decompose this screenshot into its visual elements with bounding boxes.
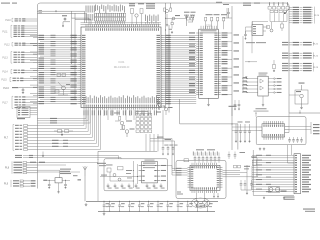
wire IC902 right row <box>268 92 274 94</box>
power rail over IC01 A <box>81 22 162 24</box>
wire PL7 row <box>15 131 19 132</box>
bottom right caption <box>303 209 315 210</box>
wire PL30 row <box>295 179 297 180</box>
wire PL17 row <box>15 104 18 105</box>
IC601 left pins <box>139 165 142 167</box>
wire PL30 row <box>295 186 297 187</box>
transistor Q204 <box>164 107 168 111</box>
svg-text:PL17: PL17 <box>2 102 8 104</box>
U301 side pins <box>259 126 263 128</box>
bottom-right board outline <box>252 150 254 195</box>
wire <box>241 189 252 191</box>
capacitor C709 <box>187 201 189 205</box>
wire PL30 row <box>295 177 297 178</box>
wire <box>251 166 253 190</box>
wire PL20 row <box>289 22 292 24</box>
wire PL13 row <box>14 62 17 63</box>
wire PL21 row <box>282 44 288 45</box>
IC IC701 body <box>190 165 220 190</box>
wire audio feed A <box>150 138 172 140</box>
capacitor C705 <box>147 201 149 205</box>
wire <box>153 134 155 151</box>
diode D11 cluster <box>58 130 62 133</box>
wire <box>223 176 259 178</box>
title text top-left <box>1 3 10 4</box>
wire <box>245 61 257 63</box>
net labels top edge <box>216 2 222 3</box>
wire IC902 left row <box>242 85 258 87</box>
wire PL9 row <box>13 183 19 184</box>
ground <box>103 212 105 213</box>
wire PL7 row <box>15 149 19 150</box>
capacitor C2 <box>64 18 66 22</box>
wire <box>157 134 159 151</box>
tuner inner caps <box>289 137 291 140</box>
transistor Q202 <box>172 17 175 20</box>
ground <box>262 96 264 104</box>
caption under IC301 <box>246 41 255 44</box>
svg-text:PL11: PL11 <box>2 31 8 33</box>
svg-text:PL8: PL8 <box>5 167 10 170</box>
power rail over IC01 B <box>81 23 162 25</box>
transistor Q103 <box>62 86 66 90</box>
svg-text:PL22: PL22 <box>313 56 319 58</box>
ground below IC201 <box>208 98 210 103</box>
resistor R205 <box>217 17 219 21</box>
wire PL11 row <box>14 30 17 31</box>
wire PL12 row <box>15 45 18 46</box>
wire rows upper <box>37 118 86 120</box>
resistor array RN101 <box>136 110 148 113</box>
wire PL30 row <box>295 162 297 163</box>
connector J2 table <box>17 107 30 118</box>
net labels cluster B <box>184 12 190 13</box>
IC01 bottom net labels <box>83 110 86 115</box>
IC IC01 MLC1900-D body <box>81 27 161 108</box>
wire row pair <box>15 155 22 156</box>
wire IC902 left row <box>242 81 258 83</box>
test point TP1 <box>71 18 73 62</box>
top label column A <box>85 6 88 13</box>
capacitor C710 <box>240 180 242 184</box>
audio out wires <box>172 167 188 169</box>
IC701 top components <box>194 153 196 158</box>
transistor Q702 <box>203 201 207 205</box>
capacitor C708 <box>177 201 179 205</box>
ground rail <box>98 210 215 212</box>
net label pair bottom <box>284 197 295 198</box>
wire <box>137 164 139 184</box>
wire branch <box>166 17 187 19</box>
wire PL13 row <box>14 54 17 55</box>
wire <box>255 113 257 117</box>
wire cluster verticals <box>269 13 271 21</box>
resistor R710 <box>253 160 257 166</box>
IC01 right pins <box>161 34 164 36</box>
ground <box>301 106 303 107</box>
IC301 right parts <box>263 26 268 28</box>
wire PL20 row <box>289 11 292 13</box>
decoupling caps trio <box>162 144 164 148</box>
IC IC201 SDRAM body <box>199 29 219 98</box>
wire VDD top <box>37 12 86 14</box>
wire PL23 row <box>282 70 288 71</box>
wire PL13 row <box>14 57 17 58</box>
ground <box>213 193 215 196</box>
wire PL10 row <box>15 18 18 19</box>
wire IC902 left row <box>242 92 258 94</box>
wire PL8 row <box>14 167 23 168</box>
labels mid rows <box>52 140 59 141</box>
top label column B <box>144 15 147 22</box>
svg-text:PL14: PL14 <box>2 72 8 74</box>
wire PL9 row <box>13 185 19 186</box>
capacitor C901 <box>48 180 50 184</box>
wire <box>145 134 147 151</box>
wire PL22 row <box>282 55 288 56</box>
capacitor C703 <box>128 201 130 205</box>
wire <box>74 19 76 100</box>
resistor R203 <box>205 17 207 21</box>
transistor Q205 <box>191 15 194 18</box>
wire PL11 row <box>14 25 17 26</box>
IC301 left caps <box>246 26 253 28</box>
svg-text:PL20: PL20 <box>314 15 320 17</box>
IC701 left pins <box>188 166 191 168</box>
net label <box>73 175 78 176</box>
capacitor C210 <box>171 22 173 24</box>
wire <box>256 158 258 177</box>
wire PL7 row <box>15 140 19 141</box>
IC701 top labels <box>196 149 204 150</box>
svg-text:PL15: PL15 <box>1 80 7 82</box>
capacitor C711 <box>207 201 209 205</box>
wire PL20 row <box>289 13 292 15</box>
tuner TU101 outline <box>256 117 306 145</box>
wire left vertical <box>242 36 244 93</box>
capacitor C700 <box>103 201 105 205</box>
wire PL11 row <box>14 34 17 35</box>
wire PL17 row <box>15 96 18 97</box>
ground <box>263 197 265 198</box>
wire PL22 row <box>282 53 288 54</box>
capacitor C712 <box>251 180 253 184</box>
transistor Q203 <box>158 103 162 107</box>
svg-text:PL7: PL7 <box>4 137 9 140</box>
ground <box>48 186 50 187</box>
capacitor C710 <box>197 201 199 205</box>
wire PL15 row <box>13 78 16 79</box>
ground <box>204 205 206 206</box>
svg-text:PL12: PL12 <box>4 44 10 46</box>
wire PL7 row <box>15 137 19 138</box>
wire PL14 row <box>14 72 17 73</box>
wire PL20 row <box>289 17 292 19</box>
capacitor C713 <box>228 152 230 155</box>
resistor R204 <box>211 17 213 21</box>
wire audio in <box>100 176 139 178</box>
wire fan to left connector <box>83 110 85 126</box>
wire PL20 row <box>289 6 292 8</box>
wire <box>246 165 248 190</box>
svg-text:IC01: IC01 <box>118 60 124 64</box>
resistor R207 <box>187 17 190 20</box>
transistor Q102 <box>125 130 129 134</box>
wire +B out <box>62 179 70 181</box>
wire PL30 row <box>295 165 297 166</box>
IC01 top pins <box>85 24 87 27</box>
IC IC902 audio driver body <box>258 76 268 96</box>
IC01 left pins <box>78 34 81 36</box>
wire <box>288 113 290 133</box>
wire <box>287 152 289 163</box>
wire PL17 row <box>15 99 18 100</box>
optocoupler Q801 <box>269 188 273 192</box>
wire PL17 row <box>15 102 18 103</box>
wire riser2 <box>97 159 99 201</box>
grounds below tuner <box>259 148 261 149</box>
wire PL8 row <box>14 172 23 173</box>
IC IC301 reset body <box>252 25 263 36</box>
ground <box>65 186 67 187</box>
wire PL20 row <box>289 20 292 22</box>
wire IC902 right row <box>268 78 274 80</box>
svg-text:MLC1900-D: MLC1900-D <box>114 65 130 69</box>
wire <box>132 161 134 188</box>
resistor R304 <box>273 60 275 65</box>
IC701 top pins <box>191 163 193 166</box>
wire PL30 row <box>295 174 297 175</box>
wire collector <box>98 150 157 152</box>
net labels top right area <box>243 3 251 4</box>
svg-text:PL10: PL10 <box>5 20 11 22</box>
wire IC902 right row <box>268 81 274 83</box>
IC601 right pins <box>157 165 160 167</box>
wire PL7 row <box>15 143 19 144</box>
antenna symbol <box>84 176 86 201</box>
ground <box>283 197 285 198</box>
wire PL9 row <box>13 180 19 181</box>
ground <box>217 193 219 196</box>
IC01 bottom pins <box>83 108 85 110</box>
wire stub <box>63 21 70 23</box>
wire route B <box>75 18 91 20</box>
resistor R208 <box>191 17 194 20</box>
wire PL21 row <box>282 42 288 43</box>
capacitor C302 <box>234 100 236 104</box>
ground stub <box>42 152 44 155</box>
wire PL11 row <box>14 36 17 37</box>
wire verticals below IC01 <box>103 110 105 116</box>
capacitor C714 <box>234 152 236 155</box>
resistor R206 <box>162 106 165 108</box>
transistor Q302 <box>270 29 273 32</box>
ground <box>171 31 173 32</box>
wire <box>223 172 248 174</box>
wire PL13 row <box>14 59 17 60</box>
IC701 right pins <box>220 166 223 168</box>
wire antenna bus <box>231 108 233 151</box>
capacitor C704 <box>138 201 140 205</box>
ground <box>85 203 87 204</box>
wire PL20 row <box>289 9 292 11</box>
wire <box>223 169 241 171</box>
wire vertical bus 1 <box>165 8 167 109</box>
wire PL30 row <box>295 160 297 161</box>
tuner input components <box>235 124 237 131</box>
audio caps row <box>107 184 109 186</box>
resistor R303 <box>281 24 284 28</box>
wire <box>110 180 133 182</box>
net labels right of IC201 <box>234 34 240 35</box>
wire <box>252 22 254 25</box>
wire PL30 row <box>295 169 297 170</box>
capacitor C701 <box>109 201 111 205</box>
wire PL14 row <box>14 70 17 71</box>
wire <box>165 111 167 115</box>
transistor Q301 circuit <box>295 90 308 104</box>
transistor Q101 <box>120 121 124 125</box>
wire PL22 row <box>282 57 288 58</box>
tuner right outputs <box>289 126 311 128</box>
svg-text:PL13: PL13 <box>2 57 8 59</box>
wire vertical bus 2 <box>168 25 170 113</box>
IC701 sub-board outline <box>176 161 226 199</box>
arrow entering board <box>285 9 290 14</box>
capacitor C702 <box>119 201 121 205</box>
arrow marker <box>245 77 247 79</box>
capacitor C706 <box>157 201 159 205</box>
wire PL30 row <box>295 155 297 156</box>
svg-text:PL16: PL16 <box>3 87 9 90</box>
audio net labels top <box>97 163 106 164</box>
IC201 right pins <box>218 32 221 34</box>
wire PL30 row <box>295 172 297 173</box>
wire <box>162 110 164 144</box>
resistor R209 <box>223 17 225 21</box>
wire IC902 right row <box>268 85 274 87</box>
U301 top pins <box>263 121 265 124</box>
wire PL30 row <box>295 181 297 182</box>
tuner TU101 label <box>256 108 267 109</box>
wire PL7 row <box>15 125 19 126</box>
capacitor C902 <box>65 180 67 184</box>
wire PL30 row <box>295 157 297 158</box>
wire PL20 row <box>289 15 292 17</box>
wire PL7 row <box>15 128 19 129</box>
wire PL11 row <box>14 32 17 33</box>
wire bundle IC01 left <box>30 34 78 36</box>
power rail <box>86 200 218 202</box>
wire <box>149 134 151 151</box>
ground <box>22 91 24 92</box>
wire PL30 row <box>295 189 297 190</box>
wire PL23 row <box>282 68 288 69</box>
net labels cluster C <box>206 14 213 15</box>
wire PL23 row <box>282 65 288 66</box>
wire PL7 row <box>15 146 19 147</box>
ground <box>58 183 60 191</box>
wire +5V in <box>43 180 47 181</box>
wire <box>59 170 61 178</box>
svg-text:IC201: IC201 <box>205 25 212 28</box>
resistor network RN2 <box>268 7 271 10</box>
IC701 right components <box>234 165 237 168</box>
wire <box>63 90 65 95</box>
wire <box>118 156 120 159</box>
wire PL10 row <box>15 20 18 21</box>
wire PL30 row <box>295 191 297 192</box>
svg-text:PL9: PL9 <box>4 183 9 186</box>
wire PL7 row <box>15 134 19 135</box>
IC701 bottom pins <box>191 191 193 194</box>
capacitor C707 <box>167 201 169 205</box>
audio interior labels <box>108 187 111 190</box>
wire VCC top <box>37 10 84 12</box>
regulator IC901 notes <box>60 169 71 170</box>
wire PL15 row <box>13 80 16 81</box>
wire rows to PL8 <box>37 161 98 163</box>
wire IC902 right row <box>268 88 274 90</box>
capacitor C205 <box>228 8 230 12</box>
wire PL30 row <box>295 167 297 168</box>
wire PL23 row <box>282 63 288 64</box>
transistor Q201 <box>166 10 169 13</box>
svg-text:PL23: PL23 <box>313 67 319 69</box>
wire PL8 row <box>14 162 23 163</box>
transistor Q701 <box>195 201 199 205</box>
wire to regulator <box>37 169 59 171</box>
capacitor C15 <box>22 88 24 90</box>
wire <box>171 166 173 176</box>
wire tuner in <box>232 126 259 128</box>
wire <box>223 174 241 176</box>
wire bus right <box>231 6 233 116</box>
transistor Q602 <box>118 178 121 181</box>
IC201 left pins <box>196 32 199 34</box>
wire PL11 row <box>14 28 17 29</box>
IC IC601 audio amp body <box>142 162 158 183</box>
crystal X1 cluster <box>131 9 134 14</box>
wire PL8 row <box>14 170 23 171</box>
capacitor C711 <box>244 180 246 184</box>
wire PL8 row <box>14 164 23 165</box>
net label antenna <box>229 106 237 107</box>
wire IC902 left row <box>242 78 258 80</box>
wire PL30 row <box>295 184 297 185</box>
wire audio feed B <box>150 140 175 142</box>
ground <box>273 70 275 71</box>
diode cluster mid-left <box>57 74 61 77</box>
wire <box>287 145 289 152</box>
junction <box>299 110 301 113</box>
wire riser <box>37 171 80 173</box>
svg-text:PL21: PL21 <box>313 44 319 46</box>
wire PL12 row <box>15 43 18 44</box>
wire IC902 left row <box>242 88 258 90</box>
pull-up resistor array RA1 <box>94 13 96 16</box>
ground <box>196 205 198 206</box>
wire <box>301 85 303 90</box>
wire link to speaker section <box>252 21 268 23</box>
ground <box>245 37 247 40</box>
wire <box>226 8 228 18</box>
wire bundle IC01 to IC201 <box>164 34 196 36</box>
tuner IC U301 body <box>262 124 285 137</box>
IC201 top pin wires <box>200 26 202 29</box>
connector PL30 block <box>294 154 301 194</box>
main board outline <box>37 3 320 189</box>
